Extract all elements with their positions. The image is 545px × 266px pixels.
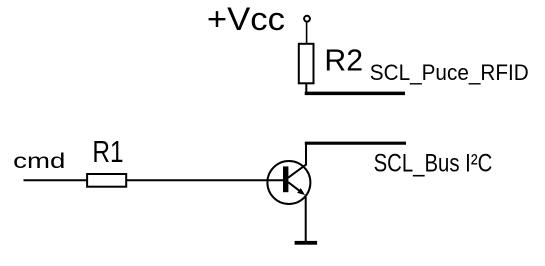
transistor Q1 emitter arrowhead	[297, 188, 305, 195]
transistor Q1 base bar	[283, 166, 288, 192]
wire Vcc terminal to R2	[306, 22, 308, 44]
net SCL_Bus bus line	[305, 142, 406, 145]
svg-text:SCL_Puce_RFID: SCL_Puce_RFID	[370, 60, 529, 85]
wire R2 to SCL_Puce_RFID net	[305, 84, 307, 94]
wire collector to SCL_Bus net	[305, 143, 307, 165]
transistor Q1 emitter diagonal	[288, 182, 302, 193]
net SCL_Puce_RFID bus line	[305, 92, 405, 96]
wire R1 to transistor base	[126, 179, 283, 181]
ground	[295, 241, 318, 245]
svg-text:R1: R1	[92, 134, 123, 169]
resistor R1	[87, 174, 126, 187]
svg-text:R2: R2	[324, 43, 363, 78]
transistor Q1 body circle	[267, 161, 310, 204]
resistor R2	[299, 44, 314, 84]
svg-text:cmd: cmd	[13, 150, 65, 173]
+Vcc terminal	[304, 16, 310, 22]
wire cmd input to R1	[24, 179, 88, 181]
transistor Q1 collector diagonal	[288, 165, 306, 178]
wire emitter to ground	[305, 195, 307, 241]
svg-text:SCL_Bus I²C: SCL_Bus I²C	[374, 149, 493, 177]
svg-text:+Vcc: +Vcc	[207, 1, 285, 37]
